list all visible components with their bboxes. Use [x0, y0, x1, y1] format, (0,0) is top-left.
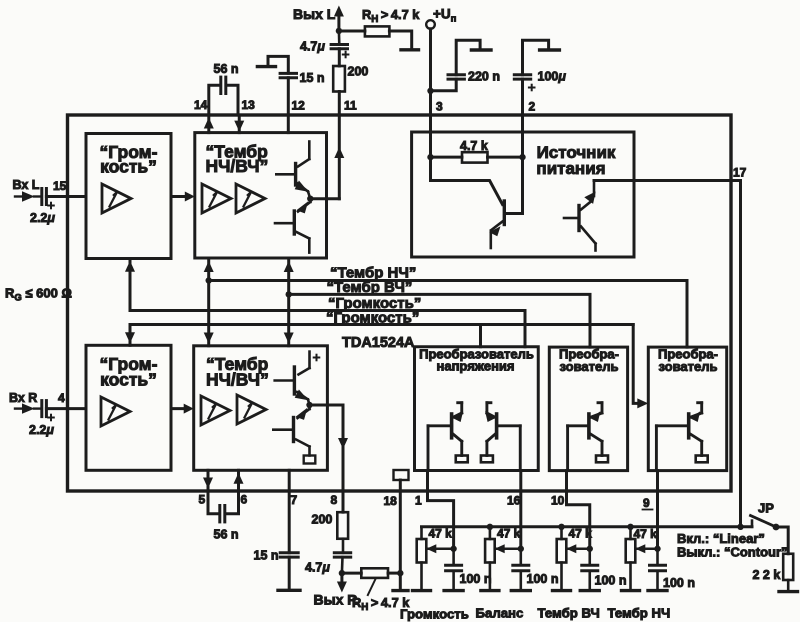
- svg-text:47 k: 47 k: [569, 527, 593, 541]
- capacitor 220n: [431, 79, 457, 91]
- node output tone R: [306, 402, 312, 408]
- svg-text:11: 11: [344, 99, 357, 113]
- ground (15n bottom): [278, 589, 300, 592]
- transistor Q7 (converter 1 left): [460, 403, 463, 413]
- svg-text:напряжения: напряжения: [437, 358, 515, 373]
- svg-text:100μ: 100μ: [538, 70, 567, 84]
- wire pin 16 stub: [519, 471, 522, 492]
- potentiometer 47k Тембр ВЧ: [560, 527, 563, 539]
- svg-text:5: 5: [199, 493, 206, 507]
- wire pin 9 stub: [656, 471, 659, 491]
- potentiometer 47k Тембр НЧ: [629, 527, 632, 539]
- op-amp tone R 1: [201, 396, 230, 425]
- svg-text:7: 7: [291, 493, 298, 507]
- wire input L to volume block: [46, 195, 86, 198]
- wire volume L out arrow: [171, 195, 188, 198]
- svg-text:220 n: 220 n: [468, 70, 500, 84]
- svg-text:18: 18: [384, 494, 398, 508]
- op-amp tone L 1: [202, 184, 231, 213]
- svg-text:зователь: зователь: [560, 359, 619, 374]
- block volume L (Громкость): [86, 134, 171, 259]
- svg-text:100 n: 100 n: [527, 572, 559, 586]
- svg-text:17: 17: [733, 166, 747, 180]
- svg-text:47 k: 47 k: [497, 527, 521, 541]
- ground (RH load L): [389, 31, 411, 49]
- wire pin 16 to pot 2 wiper: [519, 491, 522, 549]
- wire pin 12 into tone L: [287, 115, 290, 133]
- svg-text:56 n: 56 n: [214, 62, 239, 76]
- node output tone L: [307, 196, 313, 202]
- wire pin 2 into block: [521, 115, 524, 157]
- junction bus Тембр ВЧ: [286, 291, 292, 297]
- wire pin 3 from +U into block: [429, 115, 432, 157]
- junction rail/pot3: [558, 524, 564, 530]
- svg-text:TDA1524A: TDA1524A: [342, 335, 415, 351]
- wire tone L output to pin 11: [310, 197, 339, 200]
- svg-text:2.2μ: 2.2μ: [30, 211, 55, 225]
- wire input R to volume block: [46, 407, 86, 410]
- capacitor 56n (pins 5-6): [208, 491, 217, 514]
- block converter 3 (Преобразователь): [648, 347, 726, 471]
- IC TDA1524A outer box: [68, 115, 732, 491]
- transistor Q2 lower (tone L push-pull): [309, 199, 312, 202]
- transistor Q1 upper (tone L push-pull): [308, 142, 311, 160]
- block tone L (Тембр НЧ/ВЧ): [195, 133, 327, 258]
- transistor Q9 (converter 2): [601, 403, 604, 413]
- op-amp tone R 2: [237, 395, 266, 424]
- svg-text:13: 13: [242, 98, 256, 112]
- wire bus Громкость 2 into volume R: [129, 325, 132, 346]
- ground (220n): [456, 40, 480, 74]
- svg-text:4.7μ: 4.7μ: [305, 561, 330, 575]
- resistor RH load R: [342, 572, 361, 575]
- transistor Q3 upper (tone R push-pull): [308, 352, 311, 368]
- svg-text:Тембр ВЧ: Тембр ВЧ: [538, 606, 600, 621]
- wire link pins 14/5 vertical with arrows: [207, 259, 210, 346]
- wire tone R output to pin 8: [310, 404, 344, 407]
- transistor Q5 (power supply left): [431, 157, 503, 204]
- capacitor 4.7u (pin 8): [334, 551, 350, 554]
- ground (2.2k): [779, 590, 798, 593]
- svg-text:питания: питания: [536, 159, 605, 178]
- svg-text:4.7μ: 4.7μ: [300, 40, 325, 54]
- block volume R (Громкость): [86, 345, 171, 470]
- svg-text:Выкл.: “Contour”: Выкл.: “Contour”: [677, 545, 788, 560]
- block tone R (Тембр НЧ/ВЧ): [194, 346, 328, 471]
- resistor 200 (pin 8): [342, 491, 345, 512]
- svg-text:Вых L: Вых L: [293, 6, 336, 22]
- svg-text:8: 8: [331, 493, 338, 507]
- wire volume R out arrow: [171, 407, 187, 410]
- svg-text:Вх L: Вх L: [13, 178, 40, 192]
- svg-text:2: 2: [529, 100, 536, 114]
- svg-text:Громкость: Громкость: [400, 607, 469, 622]
- svg-text:200: 200: [348, 65, 369, 79]
- capacitor 15n (pin 7): [288, 491, 291, 553]
- svg-text:47 k: 47 k: [634, 527, 658, 541]
- svg-text:НЧ/ВЧ”: НЧ/ВЧ”: [206, 156, 269, 176]
- svg-text:15 n: 15 n: [254, 549, 279, 563]
- svg-text:14: 14: [194, 98, 208, 112]
- wire pin 1 to pot 1 wiper: [428, 491, 454, 549]
- svg-text:НЧ/ВЧ”: НЧ/ВЧ”: [206, 370, 269, 390]
- wire pin 6 into tone R with up arrow: [237, 470, 240, 491]
- svg-text:кость”: кость”: [100, 157, 157, 177]
- potentiometer 47k Баланс: [489, 527, 492, 539]
- wire pin 9 to pot 4 wiper: [656, 491, 659, 549]
- svg-text:10: 10: [551, 494, 565, 508]
- svg-text:56 n: 56 n: [214, 528, 239, 542]
- svg-text:200: 200: [312, 513, 333, 527]
- wire pin 18: [399, 480, 402, 590]
- wire pin 7 from tone R: [288, 470, 291, 491]
- svg-text:4: 4: [58, 391, 65, 405]
- wire JP to 2.2k: [776, 527, 788, 554]
- svg-text:12: 12: [292, 99, 306, 113]
- ground (pin 18): [393, 589, 408, 592]
- node pin 3 / 220n: [427, 88, 433, 94]
- pin 18 internal box: [394, 470, 409, 480]
- svg-text:3: 3: [436, 100, 443, 114]
- transistor Q4 lower (tone R push-pull): [308, 405, 311, 409]
- svg-text:47 k: 47 k: [429, 527, 453, 541]
- capacitor 2.2u (left input): [40, 189, 43, 205]
- block converter 2 (Преобразователь): [549, 347, 627, 471]
- svg-text:JP: JP: [758, 501, 774, 516]
- svg-text:Вх R: Вх R: [9, 391, 37, 405]
- svg-text:кость”: кость”: [100, 370, 157, 390]
- svg-text:15 n: 15 n: [300, 71, 325, 85]
- wire link pins 13/6 vertical with arrows: [287, 259, 290, 346]
- svg-text:2 2 k: 2 2 k: [753, 568, 781, 582]
- junction rail/pot4: [627, 524, 633, 530]
- wire bus4 to converter 3 left side arrow: [633, 325, 637, 404]
- resistor 2.2k: [783, 554, 793, 580]
- node pin3/4.7k: [427, 154, 433, 160]
- block power supply (Источник питания): [412, 132, 634, 257]
- potentiometer 47k Громкость: [420, 527, 423, 539]
- junction bus Тембр НЧ: [206, 277, 212, 283]
- wire potentiometer top rail: [422, 525, 753, 528]
- junction rail/pot2: [487, 524, 493, 530]
- wire pin 10 stub: [565, 471, 568, 491]
- resistor 200 (pin 11): [338, 49, 341, 66]
- svg-text:16: 16: [507, 494, 521, 508]
- node pin2/4.7k: [519, 154, 525, 160]
- junction rail/pin17: [737, 524, 743, 530]
- wire volume L to bus Громкость: [129, 259, 132, 311]
- transistor Q8 (converter 1 right): [485, 403, 488, 413]
- node Вых R: [339, 570, 345, 576]
- op-amp volume L: [102, 184, 131, 213]
- wire pin 10 to pot 3 wiper: [567, 491, 590, 549]
- output Вых R arrow: [340, 573, 343, 582]
- wire pin 14 into tone L with up arrow: [207, 115, 210, 133]
- block converter 1 (Преобразователь напряжения): [415, 347, 539, 471]
- ground (via 15n): [268, 56, 288, 73]
- wire pin 13 into tone L with down arrow: [238, 115, 241, 133]
- emitter resistor box (tone R): [304, 456, 316, 464]
- svg-text:зователь: зователь: [659, 359, 718, 374]
- ground (100u): [523, 40, 549, 74]
- op-amp tone L 2: [236, 184, 265, 213]
- svg-text:100 n: 100 n: [663, 576, 695, 590]
- svg-text:Тембр НЧ: Тембр НЧ: [608, 606, 671, 621]
- svg-text:6: 6: [241, 493, 248, 507]
- svg-text:100 n: 100 n: [460, 572, 492, 586]
- capacitor 100u (pin 2): [514, 73, 530, 76]
- svg-text:100 n: 100 n: [595, 574, 627, 588]
- svg-text:9: 9: [643, 496, 650, 510]
- svg-text:Баланс: Баланс: [476, 606, 524, 621]
- wire pin 5 from tone R with down arrow: [207, 470, 210, 491]
- svg-text:15: 15: [53, 179, 67, 193]
- svg-text:1: 1: [415, 494, 422, 508]
- wire pin 1 stub: [426, 471, 429, 492]
- op-amp volume R: [101, 397, 130, 426]
- transistor Q6 (power supply right): [577, 206, 580, 231]
- capacitor 2.2u (right input): [40, 401, 43, 417]
- transistor Q10 (converter 3): [700, 403, 703, 413]
- node Вых L: [336, 28, 342, 34]
- wire bus4 branch into converter 1: [479, 325, 482, 347]
- svg-text:Вых R: Вых R: [314, 592, 358, 608]
- svg-text:2.2μ: 2.2μ: [29, 423, 54, 437]
- wire pin 17: [594, 181, 741, 527]
- node RH/pin18: [397, 570, 403, 576]
